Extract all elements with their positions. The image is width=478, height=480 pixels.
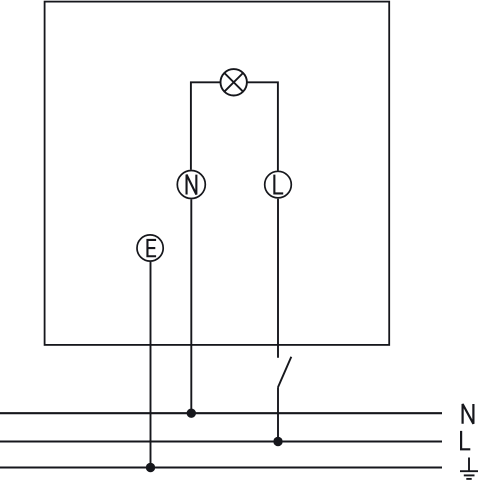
terminal N [177, 171, 205, 199]
wire terminal L down to switch [277, 199, 279, 358]
label N at bus [463, 404, 474, 424]
N bus line [0, 412, 442, 414]
device enclosure box [45, 2, 390, 345]
terminal E [137, 235, 163, 261]
ground symbol [460, 458, 478, 479]
junction dot L bus [273, 437, 282, 446]
label L in terminal [274, 175, 283, 194]
label N in terminal [187, 175, 197, 195]
junction dot PE bus [146, 463, 155, 472]
junction dot N bus [187, 409, 196, 418]
lamp E1 [221, 69, 247, 95]
wire lamp right to terminal L [247, 82, 278, 170]
wire terminal N down to N bus [190, 199, 192, 413]
L bus line [0, 440, 442, 442]
wire terminal E down to PE bus [150, 262, 152, 468]
wire lamp left to terminal N [191, 82, 221, 170]
terminal L [265, 171, 292, 198]
label E in terminal [147, 240, 156, 256]
label L at bus [461, 431, 470, 449]
wire switch down to L bus [277, 387, 279, 441]
PE bus line [0, 466, 442, 468]
switch S1 blade [278, 357, 291, 387]
